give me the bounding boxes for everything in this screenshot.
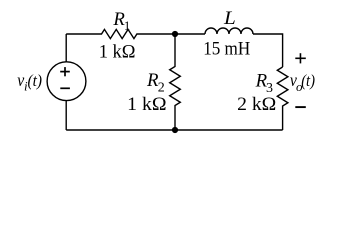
svg-text:2: 2 bbox=[158, 81, 165, 96]
svg-text:2 kΩ: 2 kΩ bbox=[237, 95, 276, 115]
svg-text:L: L bbox=[223, 9, 236, 29]
svg-text:R: R bbox=[146, 71, 159, 91]
svg-text:1: 1 bbox=[124, 18, 130, 33]
svg-text:1 kΩ: 1 kΩ bbox=[127, 95, 166, 115]
svg-text:(t): (t) bbox=[28, 71, 43, 90]
svg-text:(t): (t) bbox=[301, 71, 315, 90]
svg-text:1 kΩ: 1 kΩ bbox=[99, 42, 136, 62]
svg-text:3: 3 bbox=[266, 81, 273, 96]
svg-text:15 mH: 15 mH bbox=[203, 39, 250, 59]
